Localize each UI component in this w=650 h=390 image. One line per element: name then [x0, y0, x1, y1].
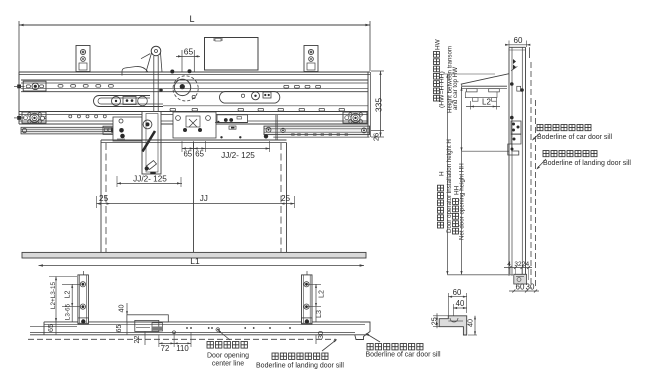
plan view dashed boundary line — [28, 338, 336, 340]
motor pulley — [159, 69, 198, 101]
svg-text:HW: HW — [435, 38, 442, 50]
dim 65 (plan center-left) — [114, 322, 127, 335]
dim 4 32 24 — [504, 261, 532, 280]
label car door sill (plan) — [365, 332, 441, 358]
dimension 65 65 JJ/2-125 right — [182, 141, 270, 160]
svg-text:L1: L1 — [190, 256, 200, 266]
plan bar small marks — [186, 327, 188, 329]
svg-text:center line: center line — [212, 361, 244, 368]
HH text group — [453, 163, 466, 240]
side view main plate — [509, 47, 530, 275]
svg-text:65: 65 — [183, 150, 192, 159]
door panels — [101, 140, 287, 258]
sill level line (side) — [447, 274, 513, 276]
left edge markers — [17, 85, 21, 89]
curved bracket near pulley — [122, 66, 148, 75]
dimension L2 (side) — [466, 98, 500, 110]
right door hanger plate — [215, 115, 277, 141]
dimension 26 — [371, 131, 384, 142]
svg-text:Boderline of landing door sill: Boderline of landing door sill — [256, 363, 344, 370]
svg-text:Net door opening height HH: Net door opening height HH — [459, 163, 466, 240]
svg-text:Boderline of car door sill: Boderline of car door sill — [537, 134, 613, 141]
HW text group — [434, 38, 460, 113]
svg-text:JJ: JJ — [200, 194, 208, 203]
svg-text:65: 65 — [195, 150, 204, 159]
svg-text:335: 335 — [374, 98, 384, 112]
svg-text:40: 40 — [466, 319, 475, 327]
right edge of header — [368, 72, 371, 137]
left top bracket — [76, 46, 90, 72]
dim L3 (right plan) — [314, 307, 323, 322]
svg-text:30: 30 — [316, 331, 325, 339]
svg-text:and car top HW: and car top HW — [452, 67, 459, 110]
svg-text:60: 60 — [516, 283, 525, 292]
dim 30 (right plan) — [316, 331, 325, 344]
sill section detail — [439, 316, 467, 335]
dimension 25 JJ 25 — [97, 194, 295, 208]
upper rail — [21, 80, 368, 92]
svg-text:72: 72 — [161, 344, 170, 353]
svg-text:25: 25 — [99, 194, 109, 203]
dim 65 (left plan) — [46, 322, 56, 335]
svg-text:Door opening: Door opening — [207, 353, 249, 360]
middle rail holes — [69, 115, 72, 118]
svg-text:JJ/2- 125: JJ/2- 125 — [133, 175, 167, 184]
svg-text:25: 25 — [430, 317, 439, 325]
H text group — [438, 139, 454, 233]
svg-text:25: 25 — [281, 194, 291, 203]
center hanger cluster — [173, 112, 216, 138]
label car door sill (side) — [531, 125, 612, 142]
drive belt loop + clamp — [94, 96, 164, 107]
svg-text:40: 40 — [117, 305, 126, 313]
svg-text:Boderline of car door sill: Boderline of car door sill — [365, 352, 441, 359]
door coupler detail (plan) — [127, 315, 176, 334]
dimension L1 — [39, 256, 365, 267]
right belt loop + clamp — [163, 92, 368, 106]
svg-text:L: L — [189, 14, 194, 24]
svg-text:60: 60 — [514, 36, 523, 45]
HH dimension line — [460, 151, 509, 275]
svg-text:65: 65 — [184, 47, 194, 57]
svg-text:JJ/2- 125: JJ/2- 125 — [221, 151, 255, 160]
dim 40 (section) — [453, 299, 466, 316]
svg-text:(HW=H-HH): (HW=H-HH) — [439, 71, 446, 108]
car sill end (plan) — [355, 322, 370, 340]
svg-text:L3: L3 — [314, 310, 323, 318]
svg-text:22: 22 — [132, 336, 141, 344]
middle rail — [19, 112, 368, 125]
svg-text:H: H — [439, 171, 446, 176]
svg-text:40: 40 — [456, 299, 465, 308]
dim 22 (plan) — [132, 332, 145, 346]
plate features — [508, 59, 524, 155]
label door opening center line — [207, 329, 249, 368]
dim 40 (plan center-left) — [117, 303, 129, 315]
HW dimension line — [460, 87, 462, 151]
svg-text:110: 110 — [176, 344, 189, 353]
svg-text:26: 26 — [372, 133, 381, 141]
left gear bracket — [22, 112, 46, 123]
svg-text:L3-65: L3-65 — [65, 303, 72, 320]
left plan bracket — [78, 271, 89, 324]
dimension 65 (top center) — [176, 47, 200, 73]
right plan bracket — [302, 271, 313, 324]
dim 40 right (section) — [466, 316, 478, 335]
svg-text:L2: L2 — [317, 290, 326, 298]
dim 72 110 (plan) — [159, 332, 191, 353]
svg-text:Boderline of landing door sill: Boderline of landing door sill — [543, 160, 631, 167]
dimension L (overall width) — [19, 14, 370, 80]
dim 60 (section) — [448, 288, 466, 316]
left door hanger plate — [113, 117, 142, 141]
svg-text:65: 65 — [46, 324, 55, 332]
label landing door sill (plan) — [256, 338, 344, 369]
center arm mechanism — [142, 112, 161, 175]
plan view sill bar — [30, 322, 370, 335]
svg-text:L2: L2 — [63, 291, 72, 299]
side sill block — [514, 274, 527, 284]
header top edge — [19, 72, 370, 124]
right top bracket — [304, 46, 318, 72]
dimension JJ/2-125 left — [117, 175, 182, 188]
lower right rail — [264, 126, 370, 137]
H dimension line — [443, 74, 495, 275]
dim L2+L3-15 — [49, 277, 77, 322]
dim L3-65 (left plan) — [65, 303, 73, 322]
label landing door sill (side) — [536, 151, 632, 171]
belt vertical runs — [154, 56, 158, 170]
sill bar (front view) — [22, 252, 366, 258]
dimension 335 — [371, 71, 384, 137]
dim 25 (section) — [430, 313, 449, 328]
idler pulley (top) — [141, 46, 162, 72]
dashed boundary lines (side) — [531, 62, 536, 289]
lower left rail — [21, 126, 117, 134]
controller box — [205, 38, 259, 71]
dim 60 30 (side bottom) — [509, 283, 539, 293]
dim L2 (right plan) — [308, 284, 326, 306]
right gear bracket — [343, 112, 367, 123]
dimension 60 (side top) — [505, 36, 530, 47]
transom bracket — [461, 74, 509, 102]
svg-text:L2+L3-15: L2+L3-15 — [50, 281, 57, 309]
svg-text:60: 60 — [453, 288, 462, 297]
dim L2 (left plan) — [62, 284, 80, 306]
svg-text:65: 65 — [114, 325, 123, 333]
svg-text:L2: L2 — [482, 98, 491, 107]
